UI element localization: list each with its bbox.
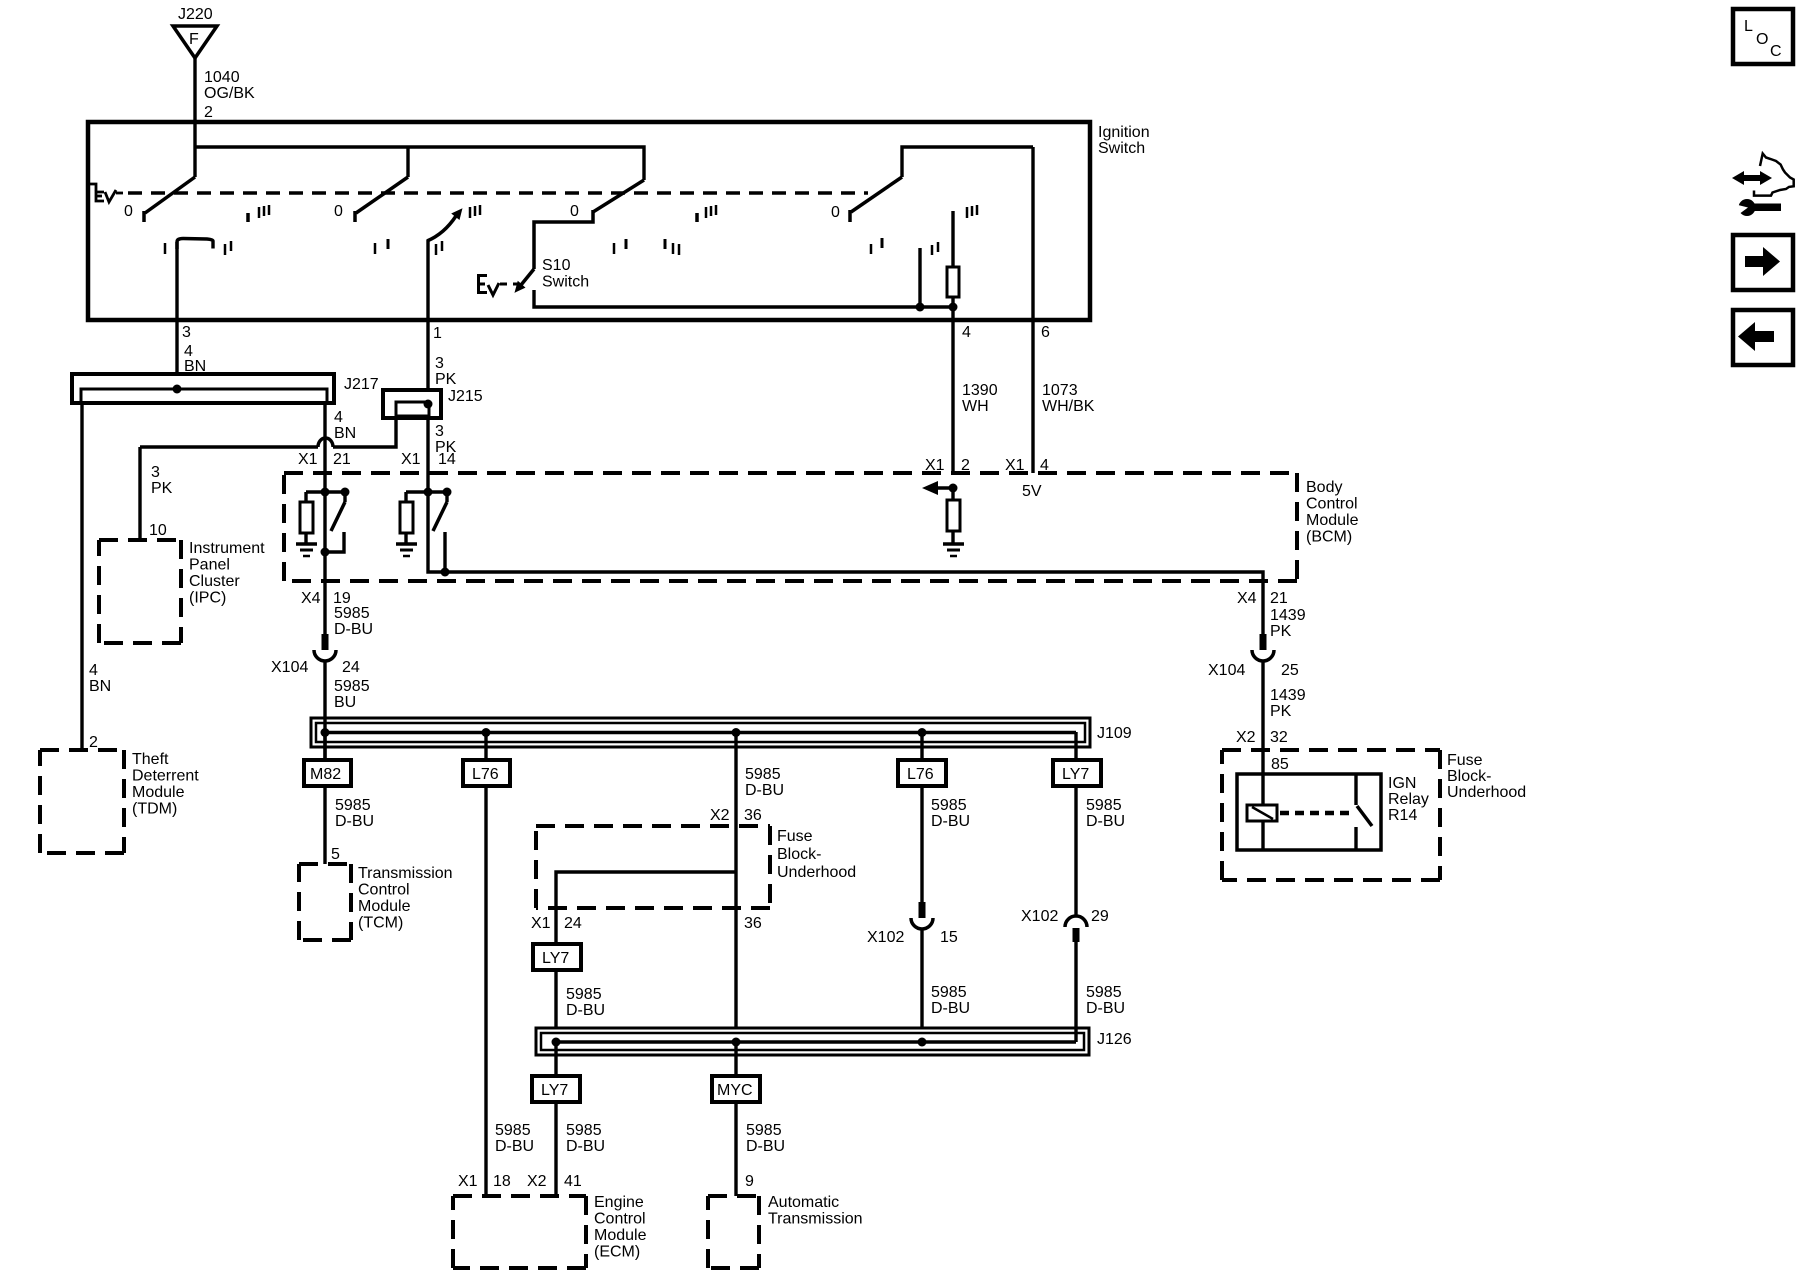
svg-text:M82: M82 (310, 766, 341, 783)
svg-text:5985: 5985 (746, 1122, 782, 1139)
svg-text:(TCM): (TCM) (358, 915, 403, 932)
engine LY7 box right (1053, 760, 1101, 786)
svg-text:Automatic: Automatic (768, 1194, 839, 1211)
svg-text:5985: 5985 (931, 984, 967, 1001)
wire pin 4 (951, 307, 954, 473)
svg-text:Underhood: Underhood (777, 864, 856, 881)
svg-text:D-BU: D-BU (746, 1138, 785, 1155)
wire J109 center to X2-36 (734, 732, 737, 872)
relay switch (1354, 774, 1357, 805)
wire IPC pin 10 (138, 447, 141, 540)
pole C blade (593, 180, 644, 212)
wire pin 1 from pole B contact II (426, 240, 429, 390)
svg-text:(BCM): (BCM) (1306, 529, 1352, 546)
svg-text:2: 2 (89, 734, 98, 751)
pole C position I ticks (613, 243, 616, 254)
wire 36 through (734, 872, 737, 1028)
wire MYC to automatic transmission (734, 1102, 737, 1196)
svg-text:F: F (189, 31, 199, 48)
BCM input 21: junction dots (321, 488, 330, 497)
key linkage dashed line (128, 191, 868, 195)
splice bus J126 (536, 1028, 1089, 1055)
theft deterrent module box (40, 748, 124, 752)
pole A wiper arc I-II (177, 239, 213, 250)
wire J109 to LY7 right (1074, 732, 1077, 760)
forward arrow icon box (1733, 235, 1793, 290)
automatic transmission box (708, 1194, 759, 1198)
svg-text:0: 0 (124, 203, 133, 220)
svg-text:5985: 5985 (745, 766, 781, 783)
body control module box (284, 471, 1297, 475)
instrument panel cluster box (99, 538, 181, 542)
svg-text:41: 41 (564, 1173, 582, 1190)
engine L76 box (463, 760, 510, 786)
wire resistor to node (951, 297, 954, 307)
engine L76 box second (898, 760, 946, 786)
wire pin 3 from pole A contact I (175, 242, 178, 376)
pole C position III ticks (695, 213, 699, 222)
svg-text:5: 5 (331, 846, 340, 863)
fuse block underhood small box (536, 824, 770, 828)
switch S10 blade with arrow (521, 269, 534, 285)
splice J217 (72, 374, 334, 403)
svg-text:D-BU: D-BU (566, 1138, 605, 1155)
pole D position II label ticks (931, 245, 934, 255)
wire L76 to ECM X1-18 (484, 786, 487, 1196)
wire X104 to J109 (323, 661, 326, 760)
relay R14 box (1237, 774, 1381, 850)
ground BCM 5V (943, 544, 964, 556)
svg-text:10: 10 (149, 522, 167, 539)
svg-text:WH: WH (962, 398, 989, 415)
wire J109 to L76 second (920, 732, 923, 760)
svg-text:D-BU: D-BU (931, 813, 970, 830)
engine MYC box (712, 1076, 760, 1102)
BCM switch 14 (445, 492, 448, 502)
svg-text:X1: X1 (458, 1173, 478, 1190)
svg-text:2: 2 (961, 457, 970, 474)
BCM signal arrow (936, 486, 953, 490)
J126 junction dots (552, 1038, 561, 1047)
svg-text:Module: Module (1306, 512, 1359, 529)
engine LY7 box bottom (532, 1076, 580, 1102)
svg-text:J220: J220 (178, 6, 213, 23)
svg-text:J126: J126 (1097, 1031, 1132, 1048)
pole C position II ticks (664, 239, 667, 249)
svg-text:BN: BN (334, 425, 356, 442)
svg-text:X102: X102 (1021, 908, 1058, 925)
key symbol at left wall (90, 184, 123, 202)
svg-text:LY7: LY7 (541, 1082, 568, 1099)
svg-text:J215: J215 (448, 388, 483, 405)
wire J215 to BCM X1-14 (3 PK) (426, 418, 429, 492)
wire X102-29 to J126 (1074, 942, 1077, 1042)
svg-text:Transmission: Transmission (358, 865, 453, 882)
S10 key symbol (477, 276, 520, 296)
pole D contact II wire (918, 248, 921, 307)
svg-text:85: 85 (1271, 756, 1289, 773)
svg-text:3: 3 (151, 464, 160, 481)
pole C step to S10 (534, 210, 593, 269)
svg-text:5985: 5985 (335, 797, 371, 814)
svg-text:36: 36 (744, 807, 762, 824)
svg-text:Transmission: Transmission (768, 1211, 863, 1228)
wire J126 to LY7 bottom (554, 1042, 557, 1076)
svg-text:J217: J217 (344, 376, 379, 393)
BCM switch 21 (343, 492, 346, 502)
svg-text:Module: Module (358, 898, 411, 915)
svg-text:32: 32 (1270, 729, 1288, 746)
svg-text:1: 1 (433, 325, 442, 342)
svg-text:J109: J109 (1097, 725, 1132, 742)
svg-text:Relay: Relay (1388, 791, 1429, 808)
pole B blade (356, 177, 408, 213)
svg-text:PK: PK (151, 480, 173, 497)
svg-text:Block-: Block- (777, 846, 821, 863)
inline connector X104-24 (322, 634, 329, 650)
svg-text:X1: X1 (531, 915, 551, 932)
svg-text:5985: 5985 (566, 986, 602, 1003)
inline connector X104-25 (1260, 634, 1267, 650)
svg-text:4: 4 (1040, 457, 1049, 474)
svg-text:5985: 5985 (566, 1122, 602, 1139)
body repair icon: double arrow (1732, 154, 1794, 217)
svg-text:Fuse: Fuse (1447, 752, 1483, 769)
svg-text:21: 21 (333, 451, 351, 468)
svg-text:X2: X2 (1236, 729, 1256, 746)
svg-text:(IPC): (IPC) (189, 590, 226, 607)
junction node pole D II (916, 303, 925, 312)
svg-text:Theft: Theft (132, 751, 169, 768)
svg-text:O: O (1756, 31, 1768, 48)
svg-text:14: 14 (438, 451, 456, 468)
svg-text:25: 25 (1281, 662, 1299, 679)
svg-text:X1: X1 (1005, 457, 1025, 474)
svg-text:5985: 5985 (495, 1122, 531, 1139)
junction dot J217 pin3 (173, 385, 182, 394)
pole B position III label ticks (469, 207, 472, 218)
wire LY7 to ECM X2-41 (554, 1102, 557, 1196)
relay coil lower wire (1261, 821, 1264, 850)
pole D position III label ticks (966, 207, 969, 218)
svg-text:2: 2 (204, 104, 213, 121)
svg-text:5985: 5985 (334, 605, 370, 622)
svg-text:L: L (1744, 18, 1753, 35)
body repair icon: wrench (1752, 204, 1781, 212)
svg-text:15: 15 (940, 929, 958, 946)
splice J215 (383, 390, 441, 418)
svg-text:BN: BN (89, 678, 111, 695)
wire X4-19 to X104 (323, 581, 326, 635)
svg-text:S10: S10 (542, 257, 571, 274)
svg-text:21: 21 (1270, 590, 1288, 607)
transmission control module box (299, 862, 351, 866)
svg-text:0: 0 (831, 204, 840, 221)
BCM input 14: junction dots (424, 488, 433, 497)
svg-text:X1: X1 (298, 451, 318, 468)
wire L76 to X102-15 (920, 786, 923, 903)
pole A position II ticks (224, 244, 227, 255)
svg-text:C: C (1770, 43, 1782, 60)
svg-text:Cluster: Cluster (189, 573, 240, 590)
wire 3 PK IPC to J215 with hop (140, 445, 318, 448)
svg-text:X102: X102 (867, 929, 904, 946)
wire J217 to TDM (80, 403, 83, 750)
svg-text:IGN: IGN (1388, 775, 1416, 792)
svg-text:24: 24 (342, 659, 360, 676)
svg-text:X2: X2 (527, 1173, 547, 1190)
svg-text:29: 29 (1091, 908, 1109, 925)
svg-text:24: 24 (564, 915, 582, 932)
svg-text:D-BU: D-BU (931, 1000, 970, 1017)
svg-text:Ignition: Ignition (1098, 124, 1150, 141)
svg-text:Underhood: Underhood (1447, 784, 1526, 801)
svg-text:1439: 1439 (1270, 687, 1306, 704)
svg-text:LY7: LY7 (1062, 766, 1089, 783)
svg-text:X2: X2 (710, 807, 730, 824)
svg-text:X104: X104 (271, 659, 308, 676)
back arrow icon box (1733, 310, 1793, 365)
pole A position I tick (164, 243, 167, 254)
wire J217 to BCM X1-21 (4 BN) (323, 403, 326, 492)
svg-text:0: 0 (570, 203, 579, 220)
engine LY7 box (fuse block) (533, 944, 581, 970)
svg-text:Switch: Switch (1098, 140, 1145, 157)
wire X102-15 to J126 (920, 929, 923, 1028)
svg-text:0: 0 (334, 203, 343, 220)
wire pin 6 drop (1031, 147, 1034, 473)
svg-text:Engine: Engine (594, 1194, 644, 1211)
svg-text:PK: PK (1270, 703, 1292, 720)
svg-text:PK: PK (1270, 623, 1292, 640)
inline connector X102-29 (1065, 916, 1087, 927)
svg-text:Deterrent: Deterrent (132, 768, 199, 785)
svg-text:Body: Body (1306, 479, 1342, 496)
svg-text:D-BU: D-BU (335, 813, 374, 830)
wire fuse block internal link (556, 872, 736, 944)
svg-text:(TDM): (TDM) (132, 801, 177, 818)
svg-text:5985: 5985 (1086, 984, 1122, 1001)
inline connector X102-15 (919, 902, 926, 918)
pole B wiper arc II-III with arrow (427, 216, 456, 241)
svg-text:4: 4 (962, 324, 971, 341)
svg-text:D-BU: D-BU (745, 782, 784, 799)
svg-text:1073: 1073 (1042, 382, 1078, 399)
svg-text:PK: PK (435, 371, 457, 388)
BCM input 21 top link (306, 490, 345, 493)
ground BCM 14 (396, 544, 417, 556)
LOC icon box (1733, 9, 1793, 64)
svg-text:3: 3 (435, 355, 444, 372)
BCM 5V resistor (951, 488, 954, 500)
pole D position I ticks (870, 244, 873, 254)
pole B stub (406, 147, 409, 177)
wire J109 to M82 (323, 732, 326, 760)
svg-text:D-BU: D-BU (566, 1002, 605, 1019)
wire inner bus A (195, 147, 644, 180)
svg-text:X4: X4 (1237, 590, 1257, 607)
svg-text:L76: L76 (907, 766, 934, 783)
wire M82 to TCM (323, 786, 326, 864)
pole A position III contact tick (246, 213, 250, 222)
relay linkage dashes (1280, 811, 1352, 816)
relay R14 coil (1247, 805, 1277, 821)
svg-text:Module: Module (594, 1227, 647, 1244)
splice bus J109 (311, 718, 1090, 747)
svg-text:X1: X1 (925, 457, 945, 474)
svg-text:R14: R14 (1388, 807, 1417, 824)
wire J220 to ignition switch pole A (193, 58, 196, 177)
svg-text:5985: 5985 (931, 797, 967, 814)
svg-text:OG/BK: OG/BK (204, 85, 255, 102)
BCM pull resistor 21 (304, 492, 307, 502)
svg-text:6: 6 (1041, 324, 1050, 341)
pole A blade (145, 177, 195, 213)
svg-text:Panel: Panel (189, 557, 230, 574)
engine control module box (453, 1194, 586, 1198)
svg-text:(ECM): (ECM) (594, 1244, 640, 1261)
S10 lower leg wire (534, 290, 953, 307)
pole D blade (851, 177, 902, 212)
svg-text:WH/BK: WH/BK (1042, 398, 1095, 415)
fuse block underhood box (1222, 748, 1440, 752)
svg-text:1390: 1390 (962, 382, 998, 399)
wire J109 to L76 (484, 732, 487, 760)
svg-text:D-BU: D-BU (1086, 813, 1125, 830)
pole B position I ticks (374, 243, 377, 254)
svg-text:3: 3 (182, 324, 191, 341)
svg-text:1439: 1439 (1270, 607, 1306, 624)
svg-text:Control: Control (358, 882, 410, 899)
svg-text:D-BU: D-BU (495, 1138, 534, 1155)
wire X104-25 to relay (1261, 661, 1264, 806)
pole A position III label ticks (258, 207, 261, 218)
svg-text:18: 18 (493, 1173, 511, 1190)
svg-text:Block-: Block- (1447, 768, 1491, 785)
svg-text:4: 4 (89, 662, 98, 679)
svg-text:LY7: LY7 (542, 950, 569, 967)
svg-text:Fuse: Fuse (777, 828, 813, 845)
svg-text:9: 9 (745, 1173, 754, 1190)
pole D contact III wire (951, 211, 954, 267)
svg-text:D-BU: D-BU (334, 621, 373, 638)
svg-text:Module: Module (132, 784, 185, 801)
svg-text:5V: 5V (1022, 483, 1042, 500)
wire J126 to MYC (734, 1042, 737, 1076)
BCM input X1-2 junction dot (949, 484, 958, 493)
wire LY7 to X102-29 (1074, 786, 1077, 916)
svg-text:L76: L76 (472, 766, 499, 783)
fuse J220 triangle symbol (173, 26, 217, 58)
BCM wire 21 through (323, 492, 326, 581)
svg-text:X104: X104 (1208, 662, 1245, 679)
junction node pole D III (949, 303, 958, 312)
svg-text:MYC: MYC (717, 1082, 753, 1099)
svg-text:Instrument: Instrument (189, 540, 265, 557)
svg-text:5985: 5985 (1086, 797, 1122, 814)
wire inner bus B to pin 6 (902, 147, 1033, 177)
BCM wire 14 to X4-21 (428, 492, 1263, 634)
svg-text:BU: BU (334, 694, 356, 711)
resistor in pole D circuit (947, 267, 959, 297)
ignition switch box (88, 122, 1090, 320)
svg-text:Control: Control (1306, 496, 1358, 513)
J109 junction dots (321, 728, 330, 737)
svg-text:5985: 5985 (334, 678, 370, 695)
svg-text:D-BU: D-BU (1086, 1000, 1125, 1017)
svg-text:Control: Control (594, 1211, 646, 1228)
junction dot J215 (424, 400, 433, 409)
ground BCM 21 (296, 544, 317, 556)
svg-text:3: 3 (435, 423, 444, 440)
engine M82 box (304, 760, 351, 786)
pole B position II ticks (435, 244, 438, 255)
wire LY7 to J126 (554, 970, 557, 1028)
svg-text:Switch: Switch (542, 274, 589, 291)
svg-text:36: 36 (744, 915, 762, 932)
svg-text:X4: X4 (301, 590, 321, 607)
svg-text:X1: X1 (401, 451, 421, 468)
BCM pull resistor 14 (404, 492, 407, 502)
BCM input 14 top link (406, 490, 447, 493)
svg-text:1040: 1040 (204, 69, 240, 86)
body repair icon: car outline (1754, 154, 1794, 196)
svg-text:4: 4 (334, 409, 343, 426)
